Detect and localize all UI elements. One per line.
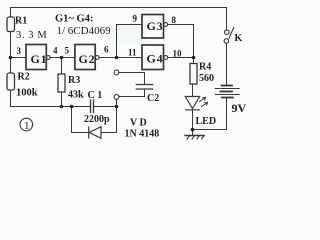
wire: C2 bottom lead to probe bottom stub: [119, 89, 145, 97]
junction node 6: [115, 56, 119, 60]
wire: R2 to bottom-left corner and bottom wire to C1: [11, 90, 91, 107]
wire: LED cathode down to ground node: [192, 110, 194, 130]
svg-text:LED: LED: [196, 116, 217, 127]
svg-text:1: 1: [24, 120, 30, 132]
wire: top V+ rail: [11, 7, 227, 9]
wire: left rail node 3 to R2: [10, 58, 12, 74]
ground: [185, 130, 204, 140]
svg-text:C2: C2: [147, 93, 159, 104]
wire: probe bottom circle to bottom node: [116, 99, 118, 106]
svg-text:8: 8: [172, 15, 177, 25]
resistor R3: [58, 74, 65, 92]
resistor R1: [7, 17, 15, 32]
watermark artifact: [106, 26, 146, 44]
svg-text:1N 4148: 1N 4148: [125, 129, 160, 140]
svg-text:G1: G1: [31, 52, 48, 66]
G4 output bubble: [164, 56, 168, 60]
inverter G2: [75, 45, 95, 70]
svg-text:100k: 100k: [16, 88, 38, 99]
svg-text:9: 9: [133, 14, 138, 24]
svg-text:G4: G4: [147, 52, 164, 66]
resistor R2: [7, 73, 15, 90]
junction node 3: [9, 56, 13, 60]
svg-text:R4: R4: [199, 62, 211, 73]
junction pins 8-10 node: [192, 56, 196, 60]
capacitor C1 plates: [91, 100, 94, 113]
wire: node 6 to G4 input pin 11: [117, 57, 143, 59]
wire: R3 bottom lead: [61, 92, 63, 107]
resistor R4: [190, 64, 197, 85]
wire: diode loop bottom left segment: [72, 132, 89, 134]
wire: G3 output pin 8 to right rail: [168, 24, 194, 26]
inverter G1: [26, 45, 46, 70]
wire: diode loop right vertical: [116, 107, 118, 133]
battery 9V plates: [215, 86, 239, 98]
wire: left rail R1 to node 3: [10, 32, 12, 58]
LED light arrows: [200, 98, 208, 107]
wire: bottom right rail ground node to battery: [193, 129, 227, 131]
junction diode left: [70, 105, 74, 109]
G3 output bubble: [164, 23, 168, 27]
G1 output bubble: [46, 56, 50, 60]
probe symbol circled 1: [20, 118, 33, 132]
wire: node 6 up and across to G3 input pin 9: [117, 25, 143, 58]
svg-text:V D: V D: [130, 118, 147, 129]
wire: top right rail down to switch K: [226, 8, 228, 30]
diode VD: [89, 127, 101, 139]
svg-text:11: 11: [128, 48, 137, 58]
wire: C1 to probe node junction: [94, 106, 117, 108]
svg-text:43k: 43k: [68, 90, 84, 101]
inverter G3: [142, 15, 164, 39]
svg-text:R1: R1: [15, 16, 27, 27]
wire: probe top stub to C2 top lead: [119, 73, 145, 85]
wire: G2 output to node 6: [99, 57, 116, 59]
wire: diode loop left vertical: [71, 107, 73, 133]
svg-text:560: 560: [199, 73, 214, 84]
junction LED ground node: [191, 128, 195, 132]
G2 output bubble: [95, 56, 99, 60]
junction R3 bottom: [60, 105, 64, 109]
capacitor C2 plates: [136, 85, 152, 90]
svg-text:6: 6: [104, 45, 109, 55]
wire: node 3 to G1 input: [11, 57, 27, 59]
svg-text:G2: G2: [79, 52, 96, 66]
junction node 5: [60, 56, 64, 60]
wire: G4 output pin 10 to right rail: [168, 57, 194, 59]
wire: right mid rail pin8 corner down to R4: [193, 25, 195, 64]
wire: battery negative down to bottom corner: [226, 98, 228, 130]
probe terminal top circle: [114, 70, 119, 75]
wire: branch node 5 down to R3: [61, 58, 63, 75]
LED: [185, 97, 199, 110]
wire: left rail top corner to R1: [10, 8, 12, 18]
svg-text:C 1: C 1: [88, 90, 103, 101]
svg-text:K: K: [235, 33, 243, 44]
inverter G4: [142, 45, 164, 70]
svg-text:4: 4: [53, 46, 58, 56]
svg-text:10: 10: [173, 49, 183, 59]
wire: G1 output to node 5: [50, 57, 61, 59]
svg-text:G1~ G4:: G1~ G4:: [55, 14, 93, 25]
svg-text:3. 3 M: 3. 3 M: [16, 30, 47, 41]
switch K: [224, 27, 234, 43]
junction C1 right probe node: [115, 105, 119, 109]
wire: node 5 to G2 input: [62, 57, 75, 59]
svg-text:3: 3: [17, 46, 22, 56]
svg-text:1/ 6CD4069: 1/ 6CD4069: [57, 25, 112, 37]
probe terminal bottom circle: [114, 95, 119, 100]
wire: R4 to LED anode: [192, 84, 194, 97]
svg-text:5: 5: [65, 46, 70, 56]
wire: diode loop bottom right segment: [101, 132, 117, 134]
svg-text:2200p: 2200p: [84, 114, 110, 125]
wire: switch to battery positive: [226, 43, 228, 85]
svg-text:9V: 9V: [232, 101, 247, 115]
svg-text:R3: R3: [68, 75, 80, 86]
svg-text:R2: R2: [18, 72, 30, 83]
svg-text:G3: G3: [147, 19, 164, 33]
